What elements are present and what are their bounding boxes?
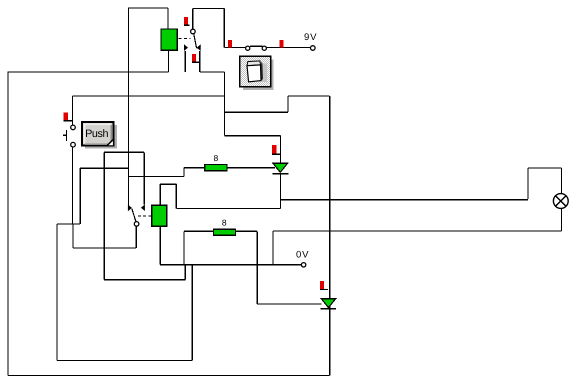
wire column x=192 xyxy=(191,265,193,361)
wire relay K1 NO contact down xyxy=(199,51,201,72)
voltage indicator on LED D2 xyxy=(320,281,324,289)
wire resistor R2 left leg xyxy=(183,231,185,264)
wire LED1 to lamp (y=199.7) xyxy=(280,199,528,201)
wire LED1 cathode column xyxy=(279,174,281,209)
relay K2 contact right arrowhead xyxy=(141,204,145,211)
wire relay K2 coil bottom lead xyxy=(159,226,161,264)
wire relay K1 contact common to 9V rail xyxy=(192,9,194,30)
relay K2 dashed actuator link xyxy=(138,215,151,217)
wire y=279.6 return xyxy=(104,279,185,281)
wire y=96 push-switch to node column xyxy=(73,95,225,97)
wire y=248 to relay K2 common xyxy=(73,247,136,249)
wire y=168 link to x=80 column xyxy=(80,167,128,169)
relay K2 contact common terminal xyxy=(134,222,139,227)
wire y=360 bottom link xyxy=(57,359,192,361)
relay K2 contact blade xyxy=(132,209,136,222)
wire lamp return drop to 0V xyxy=(272,231,274,265)
wire 9V-rail top-left vertical (main rail x=128.5) xyxy=(128,8,130,206)
push switch SW2 top terminal xyxy=(71,125,76,130)
wire resistor R1 row xyxy=(183,168,185,177)
wire column x=56.9 xyxy=(56,224,58,360)
relay K1 contact left arrowhead xyxy=(184,44,188,51)
svg-text:Push: Push xyxy=(85,128,108,140)
wire push bottom junction y=224 xyxy=(57,223,80,225)
svg-text:9V: 9V xyxy=(304,32,317,43)
wire y=152 cross link xyxy=(104,151,144,153)
voltage indicator on LED D1 xyxy=(272,145,277,153)
relay K1 contact blade xyxy=(194,34,197,49)
wire bottom rail y=375.5 xyxy=(8,375,330,377)
svg-text:0V: 0V xyxy=(296,249,309,260)
relay K1 contact common terminal xyxy=(191,29,196,34)
relay K2 contact left arrowhead xyxy=(128,205,132,212)
wire resistor R2 row xyxy=(184,230,257,232)
wire relay K2 coil top loop xyxy=(159,184,161,205)
wire lamp bottom return xyxy=(273,230,562,232)
wire column x=104 xyxy=(103,152,105,279)
wire lamp top loop xyxy=(527,168,529,199)
resistor R2 xyxy=(213,229,235,235)
wire relay K1 NC contact stub xyxy=(184,51,186,72)
voltage indicator on push switch xyxy=(64,113,68,121)
relay K1 coil xyxy=(161,29,177,50)
svg-text:8: 8 xyxy=(222,218,227,228)
LED D1 xyxy=(273,163,288,172)
voltage indicator right of SW1 xyxy=(280,40,284,48)
wire 0V rail xyxy=(160,264,301,266)
relay K2 coil xyxy=(152,205,167,226)
push switch SW2 plunger xyxy=(66,130,68,141)
push switch SW2 bottom terminal xyxy=(71,142,76,147)
wire push switch top lead xyxy=(72,96,74,125)
wire y=208 to LED1 cathode xyxy=(176,208,280,210)
svg-text:8: 8 xyxy=(214,153,219,163)
switch SW1 blade xyxy=(250,45,263,47)
wire relay K2 NO contact drop xyxy=(143,152,145,204)
relay K1 contact right arrowhead xyxy=(197,44,201,51)
wire node column x=224.5 (contact to LED1 feed) xyxy=(224,72,226,136)
switch SW1 open contacts on 9V rail xyxy=(246,46,250,50)
wire relay K2 contact feeds (y=176) xyxy=(129,175,185,177)
wire lamp bottom lead xyxy=(561,208,563,231)
relay K1 dashed actuator link xyxy=(179,37,191,39)
push button SW2 actuator icon xyxy=(85,125,117,149)
lamp L1 xyxy=(553,194,568,209)
wire 9V rail left segment xyxy=(224,47,245,49)
wire left outer rail xyxy=(7,72,9,376)
wire relay K1 coil top feed xyxy=(128,7,168,9)
resistor R1 xyxy=(205,165,227,171)
wire 9V rail right segment to battery terminal xyxy=(266,47,311,49)
voltage indicator on relay K1 NO contact xyxy=(192,54,196,62)
wire column x=72.9 xyxy=(72,224,74,248)
wire y=112 jog to right rail xyxy=(225,111,288,113)
voltage indicator on relay K1 common stub xyxy=(184,17,188,25)
wire right rail x=329.7 xyxy=(329,96,331,376)
wire resistor R2 right leg to LED2 xyxy=(256,231,258,304)
battery 9V terminal xyxy=(311,46,316,51)
voltage indicator left of SW1 xyxy=(228,40,232,48)
wire LED1 anode feed xyxy=(225,135,281,137)
LED D2 xyxy=(321,299,335,308)
battery 0V terminal xyxy=(301,263,305,267)
wire relay K1 coil bottom to left rail (y=72) xyxy=(8,71,169,73)
wire push switch bottom lead xyxy=(72,147,74,224)
